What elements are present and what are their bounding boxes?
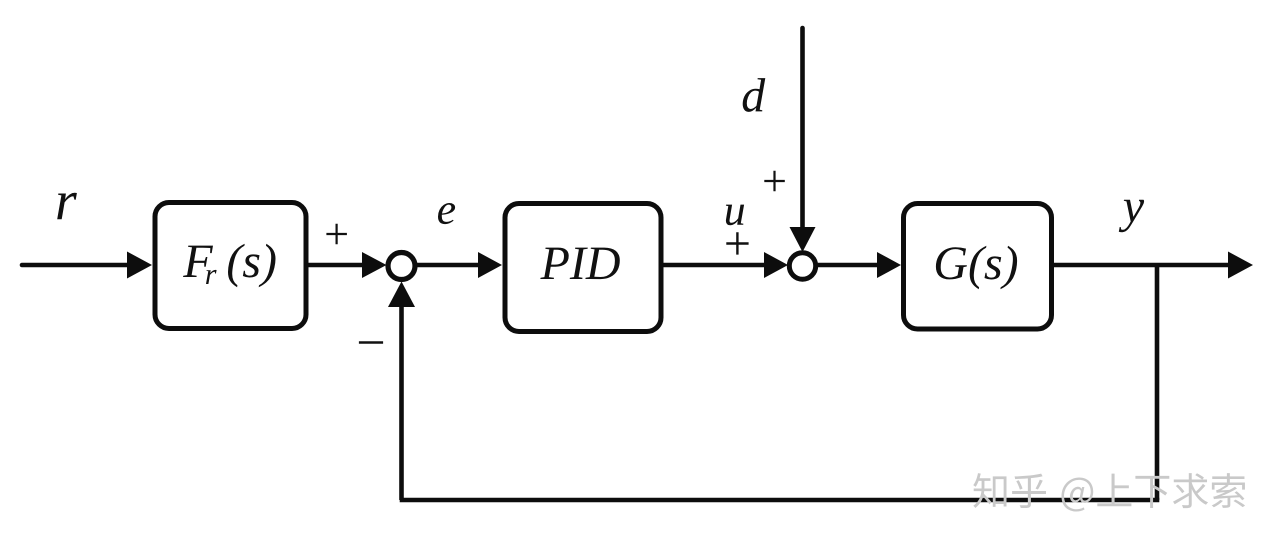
arrowhead into sum1 (362, 252, 387, 278)
arrowhead output y (1228, 252, 1253, 279)
block Fr(s) (155, 203, 306, 329)
arrowhead d down into sum2 (790, 227, 816, 252)
block PID (505, 204, 661, 332)
wire d disturbance input (800, 28, 805, 230)
label r subscript of block Fr (206, 270, 217, 284)
summing junction sum1 (388, 253, 415, 280)
wire Fr to sum1 (308, 263, 366, 268)
wire sum2 to G (818, 263, 880, 268)
label PID text (540, 248, 620, 280)
label e (438, 203, 455, 224)
label (s) of block Fr (228, 244, 276, 288)
label r (57, 193, 77, 219)
wire feedback up to sum1 (399, 306, 404, 500)
wire G to output (1054, 263, 1232, 268)
label plus d at sum2 (764, 171, 785, 192)
wire sum1 to PID (417, 263, 482, 268)
wire feedback down from output branch (1155, 265, 1160, 500)
arrowhead into sum2 (764, 252, 788, 278)
label plus u at sum2 (726, 232, 748, 254)
wire r input (22, 263, 132, 268)
label minus at sum1 (359, 341, 383, 344)
summing junction sum2 (789, 253, 815, 279)
label d (743, 78, 766, 112)
arrowhead into G (877, 252, 901, 278)
wire feedback bottom (400, 498, 1160, 503)
arrowhead into PID (478, 252, 502, 278)
wire PID to sum2 (663, 263, 767, 268)
label u (726, 205, 744, 226)
arrowhead into Fr (127, 252, 152, 279)
label plus at sum1 (326, 224, 347, 245)
label y (1119, 200, 1144, 232)
label G(s) text (936, 246, 1017, 290)
block G(s) (904, 204, 1052, 330)
watermark zhihu @shangxiaqiusuo (973, 473, 1245, 511)
label F of block Fr (183, 246, 213, 277)
arrowhead feedback up into sum1 (388, 282, 415, 308)
